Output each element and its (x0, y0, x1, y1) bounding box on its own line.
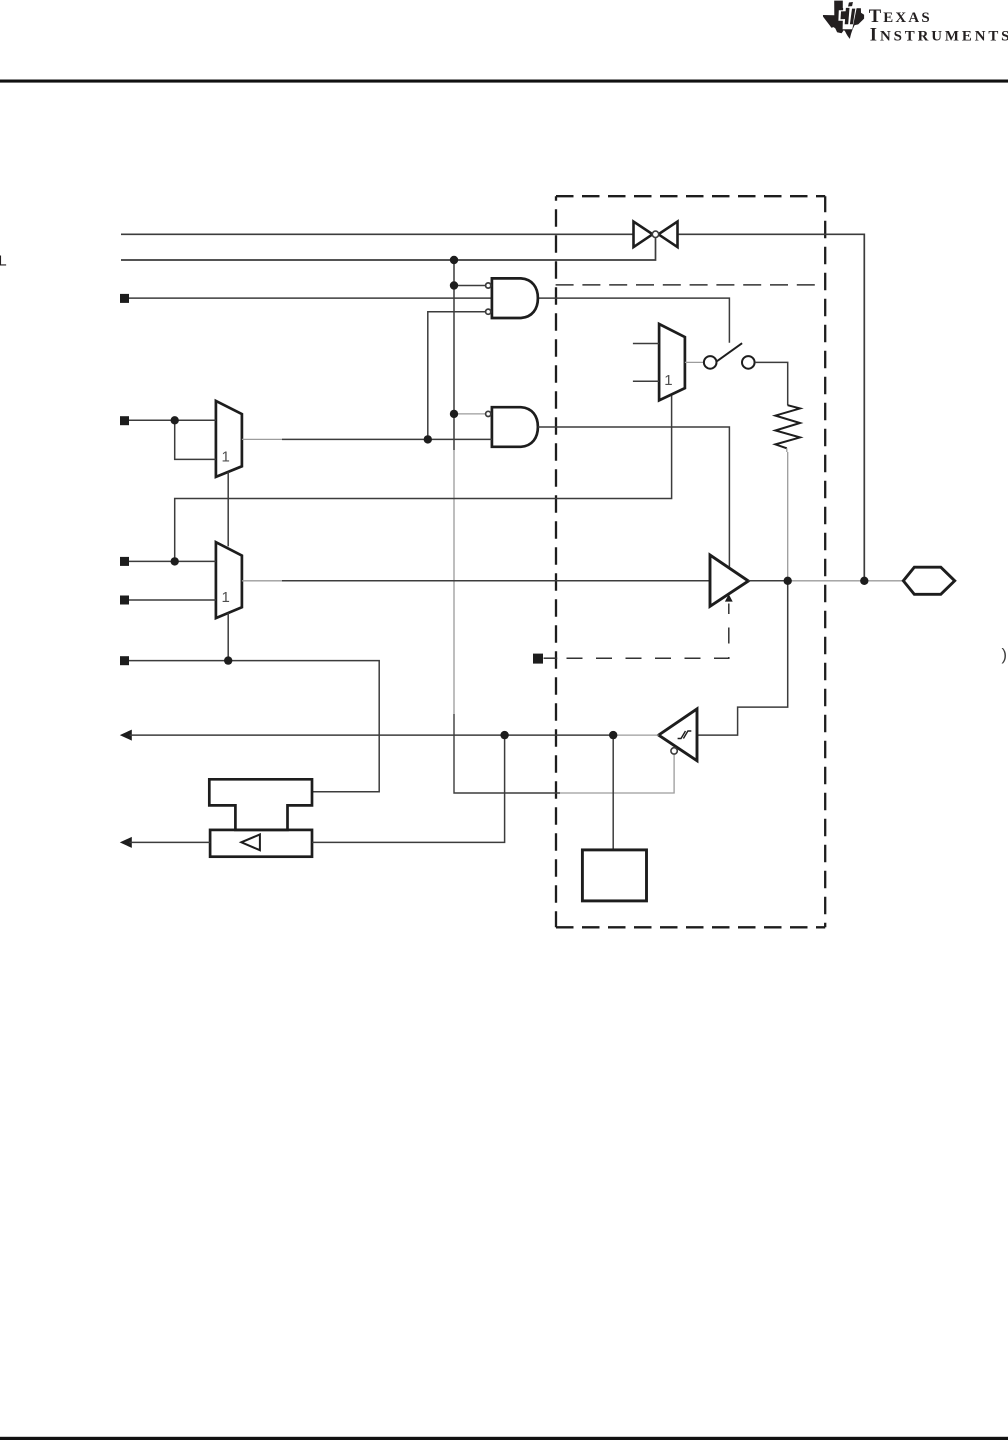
svg-text:): ) (1002, 646, 1008, 664)
svg-text:1: 1 (664, 372, 672, 389)
svg-text:L: L (0, 254, 7, 270)
svg-text:1: 1 (222, 589, 230, 606)
svg-text:INSTRUMENTS: INSTRUMENTS (870, 24, 1008, 45)
svg-text:1: 1 (222, 448, 230, 465)
